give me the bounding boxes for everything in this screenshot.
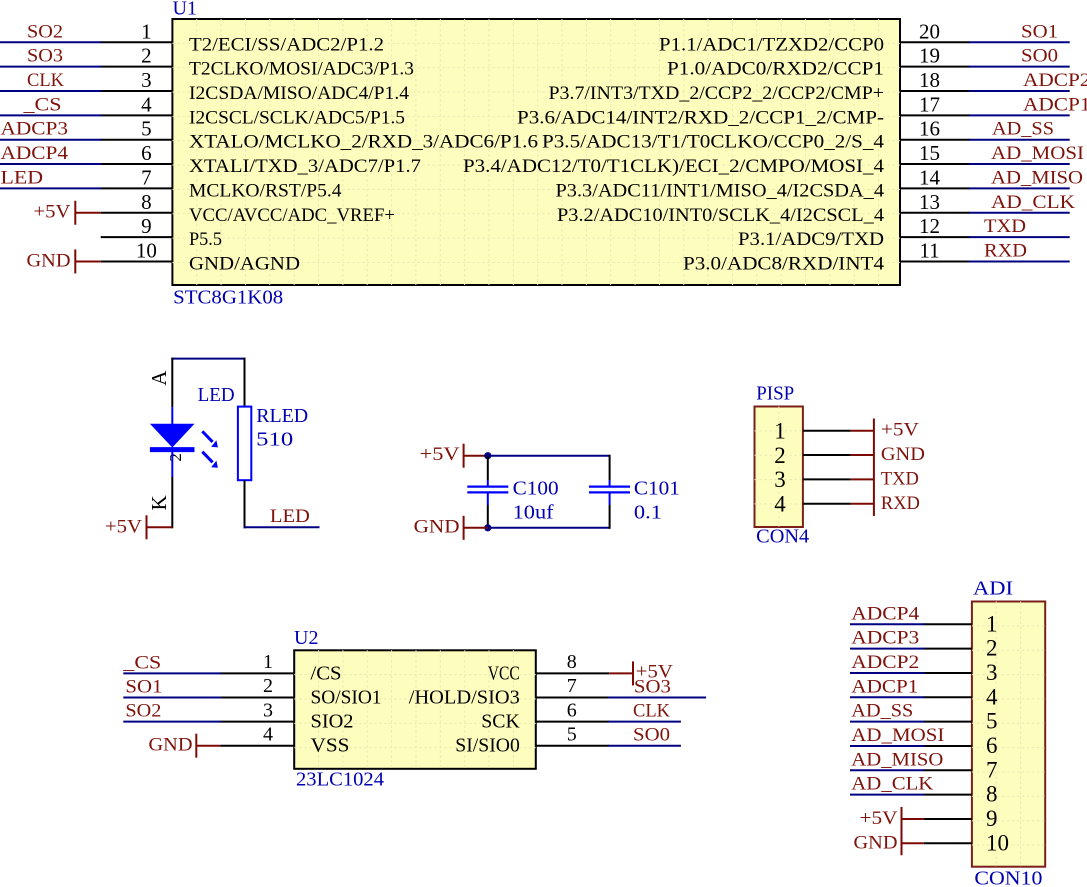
net label CLK bbox=[27, 70, 64, 91]
power port RXD at PISP pin 4 bbox=[851, 493, 920, 514]
LED symbol anode pin bbox=[171, 407, 173, 425]
U1 pin 1 T2/ECI/SS/ADC2/P1.2 bbox=[101, 19, 384, 55]
power port +5V below LED bbox=[105, 515, 172, 539]
svg-text:2: 2 bbox=[263, 675, 273, 697]
U1 pin 11 P3.0/ADC8/RXD/INT4 bbox=[683, 238, 970, 274]
U1 pin 15 P3.4/ADC12/T0/T1CLK)/ECI_2/CMPO/MOSI_4 bbox=[463, 141, 970, 177]
wire net SO3 from U2 pin 7 bbox=[608, 697, 706, 699]
ADI pin 8 bbox=[924, 782, 998, 807]
U2 pin 5 SI/SIO0 bbox=[455, 723, 609, 756]
svg-text:_CS: _CS bbox=[22, 94, 61, 115]
PISP pin 1 bbox=[774, 418, 850, 443]
net label SO1 bbox=[125, 677, 162, 698]
svg-text:2: 2 bbox=[774, 443, 786, 468]
svg-text:P3.5/ADC13/T1/T0CLKO/CCP0_2/S_: P3.5/ADC13/T1/T0CLKO/CCP0_2/S_4 bbox=[542, 132, 885, 153]
svg-text:8: 8 bbox=[567, 651, 577, 673]
svg-text:10: 10 bbox=[136, 238, 157, 262]
svg-text:CLK: CLK bbox=[633, 701, 670, 722]
svg-text:+5V: +5V bbox=[105, 516, 142, 537]
IC U2 23LC1024 body bbox=[294, 650, 536, 769]
svg-text:CON10: CON10 bbox=[974, 868, 1042, 887]
svg-text:7: 7 bbox=[141, 165, 152, 189]
wire net SO2 to U2 pin 3 bbox=[123, 721, 221, 723]
svg-text:+5V: +5V bbox=[860, 808, 898, 829]
wire C100 bottom bbox=[487, 505, 489, 528]
net label AD_MISO bbox=[851, 749, 943, 770]
designator PISP bbox=[756, 382, 794, 404]
wire net ADCP4 to ADI pin 1 bbox=[850, 623, 925, 625]
junction dot GND rail bbox=[484, 524, 491, 531]
svg-text:20: 20 bbox=[919, 19, 940, 43]
wire net RXD from U1 pin 11 bbox=[969, 260, 1070, 262]
power port +5V at PISP pin 1 bbox=[851, 420, 920, 441]
net label AD_CLK bbox=[991, 192, 1075, 213]
wire net ADCP4 to U1 pin 6 bbox=[0, 163, 102, 165]
U1 pin 7 MCLKO/RST/P5.4 bbox=[101, 165, 342, 201]
svg-text:RLED: RLED bbox=[256, 405, 308, 427]
power port +5V at U1 pin 8 bbox=[34, 201, 101, 225]
net label _CS bbox=[22, 94, 61, 115]
ADI pin 7 bbox=[924, 757, 998, 782]
svg-text:3: 3 bbox=[774, 467, 786, 492]
net label SO2 bbox=[125, 701, 161, 722]
svg-text:12: 12 bbox=[919, 214, 940, 238]
wire net ADCP1 to ADI pin 4 bbox=[850, 696, 925, 698]
connector PISP CON4 body bbox=[755, 407, 803, 528]
connector ADI CON10 body bbox=[972, 602, 1045, 867]
svg-text:SO2: SO2 bbox=[27, 21, 63, 42]
svg-text:GND: GND bbox=[881, 444, 925, 465]
junction dot +5V rail bbox=[484, 452, 491, 459]
svg-text:C100: C100 bbox=[513, 478, 559, 500]
ADI pin 1 bbox=[924, 611, 998, 636]
svg-text:RXD: RXD bbox=[881, 493, 920, 514]
LED symbol cathode bar bbox=[150, 447, 195, 452]
U2 pin 1 /CS bbox=[220, 651, 341, 684]
U1 pin 16 P3.5/ADC13/T1/T0CLKO/CCP0_2/S_4 bbox=[542, 117, 970, 153]
svg-text:SO2: SO2 bbox=[125, 701, 161, 722]
svg-text:8: 8 bbox=[986, 782, 998, 807]
wire net AD_SS from U1 pin 16 bbox=[969, 139, 1070, 141]
svg-text:7: 7 bbox=[986, 757, 998, 782]
svg-text:10: 10 bbox=[986, 830, 1009, 855]
svg-text:19: 19 bbox=[919, 44, 940, 68]
svg-text:CLK: CLK bbox=[27, 70, 64, 91]
svg-text:4: 4 bbox=[986, 684, 998, 709]
svg-text:CON4: CON4 bbox=[756, 525, 809, 547]
svg-text:1: 1 bbox=[263, 651, 273, 673]
resistor RLED value 510 bbox=[256, 429, 293, 451]
ADI pin 5 bbox=[924, 709, 998, 734]
net label LED bbox=[270, 506, 310, 527]
wire net LED to U1 pin 7 bbox=[0, 187, 102, 189]
svg-text:RXD: RXD bbox=[984, 240, 1027, 261]
svg-text:ADCP1: ADCP1 bbox=[851, 676, 918, 697]
svg-text:AD_MOSI: AD_MOSI bbox=[851, 725, 944, 746]
svg-text:SI/SIO0: SI/SIO0 bbox=[455, 735, 520, 757]
svg-text:PISP: PISP bbox=[756, 382, 794, 404]
power port TXD at PISP pin 3 bbox=[851, 468, 919, 489]
U2 pin 7 /HOLD/SIO3 bbox=[409, 675, 609, 708]
LED symbol triangle bbox=[150, 424, 195, 448]
svg-text:AD_CLK: AD_CLK bbox=[991, 192, 1075, 213]
wire net LED bottom bbox=[244, 526, 320, 528]
designator ADI bbox=[973, 577, 1013, 599]
wire net AD_MOSI to ADI pin 6 bbox=[850, 745, 925, 747]
svg-text:SO/SIO1: SO/SIO1 bbox=[311, 687, 382, 709]
wire top of LED branch bbox=[171, 358, 245, 360]
svg-text:ADCP2: ADCP2 bbox=[1023, 70, 1087, 91]
wire net TXD from U1 pin 12 bbox=[969, 236, 1070, 238]
svg-text:P3.1/ADC9/TXD: P3.1/ADC9/TXD bbox=[738, 229, 884, 250]
value 10uf bbox=[513, 501, 554, 523]
svg-text:VCC: VCC bbox=[488, 662, 520, 684]
net label ADCP3 bbox=[1, 119, 69, 140]
svg-text:P1.0/ADC0/RXD2/CCP1: P1.0/ADC0/RXD2/CCP1 bbox=[667, 59, 884, 80]
svg-text:SO1: SO1 bbox=[1021, 21, 1058, 42]
ADI pin 2 bbox=[924, 636, 998, 661]
svg-text:ADCP3: ADCP3 bbox=[851, 628, 919, 649]
power port +5V at ADI pin 9 bbox=[860, 807, 924, 832]
net label CLK bbox=[633, 701, 670, 722]
svg-text:510: 510 bbox=[256, 429, 293, 451]
U1 pin 17 P3.6/ADC14/INT2/RXD_2/CCP1_2/CMP- bbox=[517, 92, 970, 128]
U1 pin 4 I2CSCL/SCLK/ADC5/P1.5 bbox=[101, 92, 405, 128]
svg-text:ADI: ADI bbox=[973, 577, 1013, 599]
wire net SO1 from U1 pin 20 bbox=[969, 41, 1070, 43]
wire resistor branch vertical top bbox=[244, 358, 246, 407]
wire net CLK to U1 pin 3 bbox=[0, 90, 102, 92]
value label STC8G1K08 bbox=[173, 287, 283, 309]
svg-text:ADCP3: ADCP3 bbox=[1, 119, 69, 140]
svg-text:AD_CLK: AD_CLK bbox=[851, 774, 933, 795]
svg-text:9: 9 bbox=[141, 214, 152, 238]
wire net CLK from U2 pin 6 bbox=[608, 721, 681, 723]
U1 pin 2 T2CLKO/MOSI/ADC3/P1.3 bbox=[101, 44, 414, 80]
wire net SO1 to U2 pin 2 bbox=[123, 697, 221, 699]
wire net SO2 to U1 pin 1 bbox=[0, 41, 102, 43]
svg-text:10uf: 10uf bbox=[513, 501, 554, 523]
svg-text:P3.6/ADC14/INT2/RXD_2/CCP1_2/C: P3.6/ADC14/INT2/RXD_2/CCP1_2/CMP- bbox=[517, 107, 884, 128]
U2 pin 6 SCK bbox=[481, 699, 609, 732]
U1 pin 6 XTALI/TXD_3/ADC7/P1.7 bbox=[101, 141, 421, 177]
svg-text:SO3: SO3 bbox=[27, 46, 63, 67]
designator U1 bbox=[173, 0, 197, 20]
svg-text:4: 4 bbox=[263, 723, 273, 745]
svg-text:+5V: +5V bbox=[34, 201, 71, 222]
wire C101 top bbox=[609, 455, 611, 480]
power port +5V at U2 pin 8 bbox=[609, 661, 673, 685]
svg-text:GND: GND bbox=[414, 517, 460, 538]
PISP pin 4 bbox=[774, 491, 850, 516]
net label AD_MOSI bbox=[851, 725, 944, 746]
capacitor C100 symbol bbox=[467, 480, 508, 505]
net label ADCP3 bbox=[851, 628, 919, 649]
svg-text:GND: GND bbox=[854, 832, 898, 853]
LED pin A label bbox=[147, 370, 171, 386]
wire net AD_CLK to ADI pin 8 bbox=[850, 794, 925, 796]
net label SO3 bbox=[634, 677, 671, 698]
svg-text:P5.5: P5.5 bbox=[189, 229, 222, 250]
wire net AD_MISO from U1 pin 14 bbox=[969, 187, 1070, 189]
value label 23LC1024 bbox=[296, 769, 384, 791]
svg-text:LED: LED bbox=[1, 167, 44, 188]
svg-text:I2CSCL/SCLK/ADC5/P1.5: I2CSCL/SCLK/ADC5/P1.5 bbox=[189, 107, 405, 128]
svg-text:U1: U1 bbox=[173, 0, 197, 20]
value 0.1 bbox=[634, 501, 662, 523]
svg-text:U2: U2 bbox=[294, 627, 318, 649]
svg-text:P3.0/ADC8/RXD/INT4: P3.0/ADC8/RXD/INT4 bbox=[683, 253, 885, 274]
svg-text:1: 1 bbox=[774, 418, 786, 443]
svg-text:4: 4 bbox=[141, 92, 152, 116]
svg-text:AD_SS: AD_SS bbox=[851, 701, 913, 722]
svg-text:23LC1024: 23LC1024 bbox=[296, 769, 384, 791]
svg-text:AD_MISO: AD_MISO bbox=[991, 167, 1083, 188]
svg-text:9: 9 bbox=[986, 806, 998, 831]
designator U2 bbox=[294, 627, 318, 649]
svg-text:5: 5 bbox=[141, 117, 152, 141]
LED emission arrow 2 bbox=[202, 452, 218, 468]
svg-text:_CS: _CS bbox=[122, 652, 161, 673]
value label CON4 bbox=[756, 525, 809, 547]
svg-text:T2/ECI/SS/ADC2/P1.2: T2/ECI/SS/ADC2/P1.2 bbox=[189, 34, 384, 55]
net label TXD bbox=[984, 216, 1026, 237]
svg-text:K: K bbox=[147, 495, 171, 510]
svg-text:TXD: TXD bbox=[881, 468, 919, 489]
svg-text:2: 2 bbox=[141, 44, 152, 68]
net label AD_SS bbox=[851, 701, 913, 722]
svg-text:+5V: +5V bbox=[881, 420, 919, 441]
wire net SO0 from U1 pin 19 bbox=[969, 66, 1070, 68]
designator C101 bbox=[634, 478, 680, 500]
wire net ADCP2 to ADI pin 3 bbox=[850, 672, 925, 674]
svg-text:ADCP2: ADCP2 bbox=[851, 652, 919, 673]
svg-text:P1.1/ADC1/TZXD2/CCP0: P1.1/ADC1/TZXD2/CCP0 bbox=[659, 34, 884, 55]
svg-text:A: A bbox=[147, 370, 171, 386]
svg-text:4: 4 bbox=[774, 491, 786, 516]
net label _CS bbox=[122, 652, 161, 673]
PISP pin 3 bbox=[774, 467, 850, 492]
net label AD_SS bbox=[992, 119, 1054, 140]
svg-text:GND/AGND: GND/AGND bbox=[189, 253, 300, 274]
svg-text:/HOLD/SIO3: /HOLD/SIO3 bbox=[409, 687, 520, 709]
svg-text:18: 18 bbox=[919, 68, 940, 92]
svg-text:STC8G1K08: STC8G1K08 bbox=[173, 287, 283, 309]
net label ADCP2 bbox=[851, 652, 919, 673]
svg-text:8: 8 bbox=[141, 190, 152, 214]
net label ADCP1 bbox=[1023, 94, 1087, 115]
ADI pin 3 bbox=[924, 660, 998, 685]
svg-text:C101: C101 bbox=[634, 478, 680, 500]
power port +5V at caps bbox=[420, 444, 488, 468]
U1 pin 10 GND/AGND bbox=[101, 238, 300, 274]
net label SO3 bbox=[27, 46, 63, 67]
svg-text:SO3: SO3 bbox=[634, 677, 671, 698]
svg-text:2: 2 bbox=[166, 453, 185, 462]
power port GND at U2 pin 4 bbox=[149, 734, 221, 758]
svg-text:AD_SS: AD_SS bbox=[992, 119, 1054, 140]
U1 pin 5 XTALO/MCLKO_2/RXD_3/ADC6/P1.6 bbox=[101, 117, 538, 153]
svg-text:T2CLKO/MOSI/ADC3/P1.3: T2CLKO/MOSI/ADC3/P1.3 bbox=[189, 59, 414, 80]
U1 pin 3 I2CSDA/MISO/ADC4/P1.4 bbox=[101, 68, 410, 104]
svg-text:LED: LED bbox=[198, 384, 235, 406]
LED emission arrow 1 bbox=[202, 431, 218, 447]
wire net SO0 from U2 pin 5 bbox=[608, 745, 681, 747]
svg-text:XTALO/MCLKO_2/RXD_3/ADC6/P1.6: XTALO/MCLKO_2/RXD_3/ADC6/P1.6 bbox=[189, 132, 538, 153]
net label AD_MISO bbox=[991, 167, 1083, 188]
designator LED bbox=[198, 384, 235, 406]
ADI pin 10 bbox=[924, 830, 1009, 855]
svg-text:6: 6 bbox=[986, 733, 998, 758]
svg-text:SCK: SCK bbox=[481, 711, 520, 733]
svg-text:VCC/AVCC/ADC_VREF+: VCC/AVCC/ADC_VREF+ bbox=[189, 205, 395, 226]
svg-text:7: 7 bbox=[567, 675, 577, 697]
svg-text:SO1: SO1 bbox=[125, 677, 162, 698]
U1 pin 18 P3.7/INT3/TXD_2/CCP2_2/CCP2/CMP+ bbox=[549, 68, 970, 104]
wire net SO3 to U1 pin 2 bbox=[0, 66, 102, 68]
U2 pin 4 VSS bbox=[220, 723, 349, 756]
U2 pin 3 SIO2 bbox=[220, 699, 353, 732]
value label CON10 bbox=[974, 868, 1042, 887]
resistor RLED body bbox=[238, 407, 251, 481]
net label AD_CLK bbox=[851, 774, 933, 795]
U1 pin 9 P5.5 bbox=[101, 214, 222, 250]
svg-text:I2CSDA/MISO/ADC4/P1.4: I2CSDA/MISO/ADC4/P1.4 bbox=[189, 83, 410, 104]
U1 pin 13 P3.2/ADC10/INT0/SCLK_4/I2CSCL_4 bbox=[557, 190, 970, 226]
svg-text:SO0: SO0 bbox=[1021, 46, 1058, 67]
svg-text:P3.4/ADC12/T0/T1CLK)/ECI_2/CMP: P3.4/ADC12/T0/T1CLK)/ECI_2/CMPO/MOSI_4 bbox=[463, 156, 885, 177]
svg-text:6: 6 bbox=[567, 699, 577, 721]
net label SO0 bbox=[633, 725, 670, 746]
wire net _CS to U2 pin 1 bbox=[123, 672, 221, 674]
svg-text:1: 1 bbox=[986, 611, 998, 636]
wire net AD_MOSI from U1 pin 15 bbox=[969, 163, 1070, 165]
wire net AD_MISO to ADI pin 7 bbox=[850, 769, 925, 771]
net label ADCP4 bbox=[1, 143, 69, 164]
svg-text:SO0: SO0 bbox=[633, 725, 670, 746]
wire net ADCP3 to U1 pin 5 bbox=[0, 139, 102, 141]
U1 pin 14 P3.3/ADC11/INT1/MISO_4/I2CSDA_4 bbox=[556, 165, 970, 201]
wire resistor branch vertical bottom bbox=[244, 480, 246, 528]
svg-text:VSS: VSS bbox=[311, 735, 350, 757]
svg-text:5: 5 bbox=[567, 723, 577, 745]
LED pin number 2 bbox=[166, 453, 185, 462]
wire net ADCP3 to ADI pin 2 bbox=[850, 648, 925, 650]
svg-text:SIO2: SIO2 bbox=[311, 711, 354, 733]
svg-text:MCLKO/RST/P5.4: MCLKO/RST/P5.4 bbox=[189, 180, 342, 201]
svg-text:AD_MOSI: AD_MOSI bbox=[991, 143, 1084, 164]
LED pin K label bbox=[147, 495, 171, 510]
svg-text:3: 3 bbox=[263, 699, 273, 721]
svg-text:15: 15 bbox=[919, 141, 940, 165]
svg-text:LED: LED bbox=[270, 506, 310, 527]
net label SO1 bbox=[1021, 21, 1058, 42]
wire C100 top bbox=[487, 456, 489, 480]
svg-text:0.1: 0.1 bbox=[634, 501, 662, 523]
net label ADCP2 bbox=[1023, 70, 1087, 91]
LED symbol cathode pin bbox=[171, 450, 173, 477]
net label LED bbox=[1, 167, 44, 188]
svg-text:ADCP4: ADCP4 bbox=[1, 143, 69, 164]
U2 pin 2 SO/SIO1 bbox=[220, 675, 381, 708]
U1 pin 12 P3.1/ADC9/TXD bbox=[738, 214, 970, 250]
IC U1 STC8G1K08 body bbox=[172, 19, 900, 285]
power bus bar at PISP bbox=[873, 419, 875, 516]
svg-text:P3.3/ADC11/INT1/MISO_4/I2CSDA_: P3.3/ADC11/INT1/MISO_4/I2CSDA_4 bbox=[556, 180, 885, 201]
svg-text:14: 14 bbox=[919, 165, 941, 189]
svg-text:5: 5 bbox=[986, 709, 998, 734]
ADI pin 6 bbox=[924, 733, 998, 758]
svg-text:TXD: TXD bbox=[984, 216, 1026, 237]
net label ADCP4 bbox=[851, 603, 920, 624]
resistor RLED designator bbox=[256, 405, 308, 427]
wire LED anode vertical bbox=[171, 358, 173, 408]
net label RXD bbox=[984, 240, 1027, 261]
wire GND rail bbox=[488, 527, 610, 529]
power port GND at PISP pin 2 bbox=[851, 444, 925, 465]
U1 pin 19 P1.0/ADC0/RXD2/CCP1 bbox=[667, 44, 970, 80]
svg-text:17: 17 bbox=[919, 92, 940, 116]
power port GND at caps bbox=[414, 516, 488, 540]
wire LED cathode vertical bbox=[171, 477, 173, 528]
svg-text:P3.7/INT3/TXD_2/CCP2_2/CCP2/CM: P3.7/INT3/TXD_2/CCP2_2/CCP2/CMP+ bbox=[549, 83, 885, 104]
svg-text:AD_MISO: AD_MISO bbox=[851, 749, 943, 770]
svg-text:6: 6 bbox=[141, 141, 152, 165]
net label SO0 bbox=[1021, 46, 1058, 67]
svg-text:3: 3 bbox=[141, 68, 152, 92]
U1 pin 8 VCC/AVCC/ADC_VREF+ bbox=[101, 190, 395, 226]
power port GND at ADI pin 10 bbox=[854, 831, 924, 855]
svg-text:11: 11 bbox=[919, 238, 939, 262]
svg-text:/CS: /CS bbox=[311, 662, 342, 684]
wire net ADCP2 from U1 pin 18 bbox=[969, 90, 1070, 92]
wire C101 bottom bbox=[609, 505, 611, 529]
svg-text:P3.2/ADC10/INT0/SCLK_4/I2CSCL_: P3.2/ADC10/INT0/SCLK_4/I2CSCL_4 bbox=[557, 205, 885, 226]
wire net _CS to U1 pin 4 bbox=[0, 114, 102, 116]
ADI pin 4 bbox=[924, 684, 998, 709]
ADI pin 9 bbox=[924, 806, 998, 831]
wire net AD_SS to ADI pin 5 bbox=[850, 721, 925, 723]
svg-text:ADCP1: ADCP1 bbox=[1023, 94, 1087, 115]
power port GND at U1 pin 10 bbox=[27, 249, 101, 273]
svg-text:13: 13 bbox=[919, 190, 940, 214]
capacitor C101 symbol bbox=[589, 480, 630, 505]
svg-text:ADCP4: ADCP4 bbox=[851, 603, 920, 624]
designator C100 bbox=[513, 478, 559, 500]
svg-text:16: 16 bbox=[919, 117, 940, 141]
wire net AD_CLK from U1 pin 13 bbox=[969, 212, 1070, 214]
svg-text:3: 3 bbox=[986, 660, 998, 685]
U1 pin 20 P1.1/ADC1/TZXD2/CCP0 bbox=[659, 19, 970, 55]
net label AD_MOSI bbox=[991, 143, 1084, 164]
svg-text:2: 2 bbox=[986, 636, 998, 661]
wire +5V rail bbox=[488, 455, 610, 457]
net label ADCP1 bbox=[851, 676, 918, 697]
U2 pin 8 VCC bbox=[488, 651, 609, 684]
net label SO2 bbox=[27, 21, 63, 42]
svg-text:+5V: +5V bbox=[420, 444, 460, 465]
wire net ADCP1 from U1 pin 17 bbox=[969, 114, 1070, 116]
svg-text:GND: GND bbox=[149, 735, 193, 756]
svg-text:XTALI/TXD_3/ADC7/P1.7: XTALI/TXD_3/ADC7/P1.7 bbox=[189, 156, 421, 177]
svg-text:GND: GND bbox=[27, 250, 71, 271]
svg-text:1: 1 bbox=[141, 19, 152, 43]
PISP pin 2 bbox=[774, 443, 850, 468]
